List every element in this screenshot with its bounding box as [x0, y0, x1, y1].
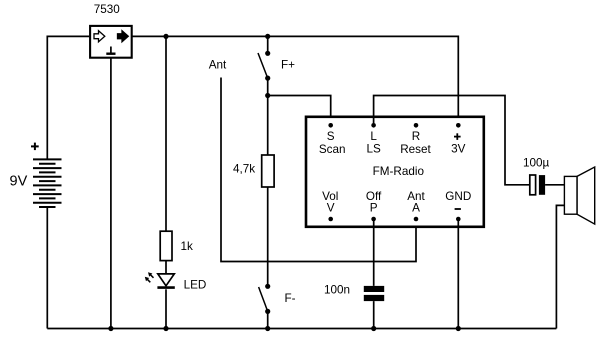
pin +3V: [456, 123, 461, 128]
wire junction down to resistor R2: [267, 96, 269, 156]
svg-text:Ant: Ant: [209, 58, 227, 71]
pin R: [414, 123, 419, 128]
switch F+: [258, 36, 270, 95]
svg-text:F-: F-: [284, 292, 295, 305]
svg-text:FM-Radio: FM-Radio: [373, 165, 425, 178]
wire IC pin P to 100n capacitor: [373, 219, 375, 286]
svg-text:GND: GND: [445, 190, 471, 203]
svg-text:1k: 1k: [181, 240, 194, 253]
svg-text:V: V: [327, 202, 335, 215]
svg-text:Scan: Scan: [319, 143, 346, 156]
wire R2 to switch F-: [267, 187, 269, 286]
svg-text:F+: F+: [281, 58, 295, 71]
svg-text:100n: 100n: [324, 284, 350, 297]
wire battery minus to bottom rail: [46, 207, 48, 329]
wire battery plus to regulator input: [47, 36, 89, 159]
junction 100n at bottom rail: [371, 326, 376, 331]
svg-text:9V: 9V: [10, 174, 28, 190]
speaker LS1: [564, 167, 594, 224]
wire R1 to LED: [165, 261, 167, 274]
svg-text:L: L: [370, 130, 377, 143]
svg-text:R: R: [412, 130, 420, 143]
resistor R2 4,7k: [262, 155, 274, 187]
svg-text:A: A: [412, 202, 420, 215]
battery B1 9V: [33, 159, 62, 207]
svg-text:7530: 7530: [94, 3, 121, 16]
junction node F+ branch / S wire / 4,7k: [265, 93, 270, 98]
svg-text:100µ: 100µ: [523, 157, 550, 170]
svg-text:4,7k: 4,7k: [233, 163, 255, 176]
junction LED branch at bottom rail: [163, 326, 168, 331]
pin L: [371, 123, 376, 128]
junction node top rail at F+ branch: [265, 34, 270, 39]
capacitor C2 100u polarized: [530, 175, 545, 195]
svg-text:S: S: [327, 130, 335, 143]
capacitor C1 100n: [364, 286, 384, 301]
wire IC pin L to coupling capacitor: [374, 96, 530, 185]
wire LED to bottom rail: [165, 289, 167, 328]
LED D1: [145, 272, 175, 287]
junction F- at bottom rail: [265, 326, 270, 331]
junction GND at bottom rail: [456, 326, 461, 331]
wire regulator ground to bottom rail: [110, 58, 112, 329]
svg-text:P: P: [370, 202, 378, 215]
wire 100u to speaker: [545, 184, 564, 186]
IC U2 FM-Radio module: [306, 117, 484, 227]
wire speaker return to bottom rail: [556, 205, 564, 328]
bottom rail wire: [47, 328, 556, 330]
voltage regulator U1 7530: [90, 26, 132, 58]
switch F-: [259, 284, 271, 329]
svg-text:3V: 3V: [451, 143, 466, 156]
wire IC pin GND to bottom rail: [457, 219, 459, 329]
resistor R1 1k: [160, 231, 172, 260]
wire regulator output along top rail to IC +3V pin: [132, 36, 459, 125]
svg-text:Reset: Reset: [400, 143, 431, 156]
wire 100n to bottom rail: [373, 301, 375, 328]
junction regulator ground at bottom rail: [108, 326, 113, 331]
wire top rail down to resistor R1: [165, 36, 167, 231]
svg-text:LED: LED: [184, 279, 207, 292]
wire junction to IC pin S: [268, 96, 331, 126]
svg-text:LS: LS: [366, 143, 381, 156]
junction node top rail at 1k branch: [163, 34, 168, 39]
wire antenna to IC pin A: [221, 78, 416, 262]
battery plus label: [31, 143, 39, 151]
pin S: [328, 123, 333, 128]
